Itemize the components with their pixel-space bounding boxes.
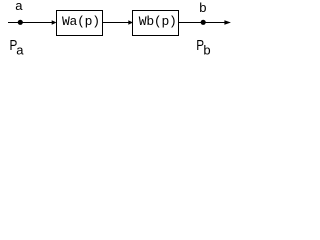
label Pa (10, 37, 25, 58)
label Pb (196, 37, 210, 58)
svg-text:a: a (16, 42, 24, 57)
node a (18, 20, 23, 25)
svg-text:b: b (199, 0, 206, 15)
wire input (8, 22, 53, 24)
arrowhead into Wa (52, 20, 57, 25)
block Wa(p) (57, 11, 103, 36)
svg-text:b: b (203, 42, 210, 57)
svg-text:a: a (15, 0, 23, 13)
block Wb(p) (133, 11, 179, 36)
background (0, 0, 248, 64)
arrowhead output (224, 20, 231, 24)
node b (201, 20, 206, 25)
svg-text:Wb(p): Wb(p) (139, 14, 177, 29)
wire output (179, 22, 227, 24)
arrowhead into Wb (128, 20, 133, 25)
wire Wa to Wb (103, 22, 131, 24)
svg-text:Wa(p): Wa(p) (62, 14, 100, 29)
